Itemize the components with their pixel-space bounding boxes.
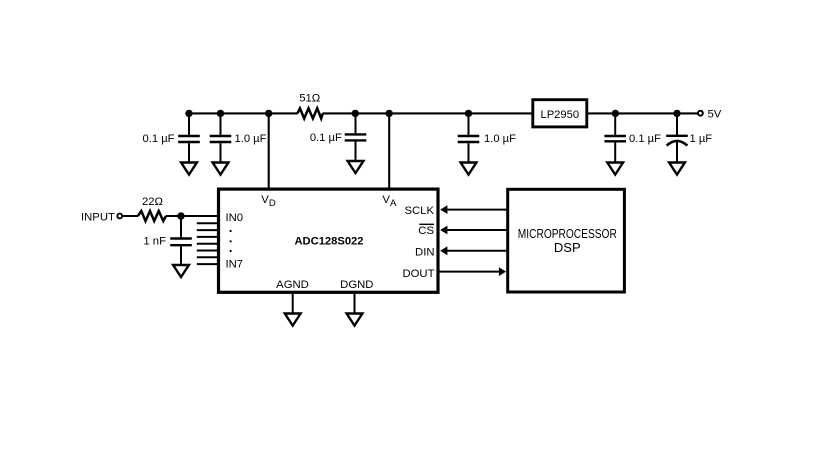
voltage regulator U2 LP2950 — [533, 100, 587, 127]
svg-text:IN0: IN0 — [226, 212, 244, 224]
svg-text:IN7: IN7 — [226, 259, 244, 271]
terminal: 5V input — [698, 109, 722, 121]
ground G3 — [348, 161, 364, 173]
pin dots IN1-IN6 ellipsis — [230, 230, 232, 252]
capacitor C7 1nF — [143, 216, 191, 264]
wire: IN6 stub — [197, 256, 220, 258]
svg-text:DIN: DIN — [415, 246, 434, 258]
svg-text:MICROPROCESSOR: MICROPROCESSOR — [518, 226, 617, 241]
wire: R2 to IN0 pin — [166, 215, 219, 217]
wire: AGND pin — [292, 292, 294, 313]
capacitor C5 0.1uF — [604, 113, 661, 161]
capacitor C1 0.1uF — [143, 113, 200, 161]
wire: input to R2 — [123, 215, 139, 217]
wire: CS with arrow to ADC — [440, 226, 508, 235]
wire: DGND pin — [354, 292, 356, 313]
junction on rail at C2 — [217, 110, 224, 117]
wire: IN7 stub — [197, 263, 220, 265]
ADC U1 ADC128S022 — [219, 189, 439, 292]
ground G9 DGND — [347, 314, 363, 326]
junction on rail at C5 — [612, 110, 619, 117]
pin label CS with overline — [418, 224, 434, 237]
svg-text:51Ω: 51Ω — [299, 92, 320, 104]
capacitor C6 1uF polarized — [666, 113, 712, 161]
wire: IN1 stub — [197, 222, 220, 224]
wire: IN4 stub — [197, 243, 220, 245]
svg-text:SCLK: SCLK — [404, 205, 434, 217]
wire: 5V rail right segment — [587, 112, 698, 114]
svg-text:22Ω: 22Ω — [142, 196, 163, 208]
junction on rail at C3 — [352, 110, 359, 117]
junction on rail at C6 — [673, 110, 680, 117]
svg-text:1.0 µF: 1.0 µF — [484, 133, 516, 145]
ground G8 AGND — [285, 314, 301, 326]
svg-text:1 µF: 1 µF — [690, 133, 713, 145]
svg-text:0.1 µF: 0.1 µF — [143, 133, 175, 145]
wire: DIN with arrow to ADC — [440, 246, 508, 255]
wire: VA supply tap — [388, 113, 390, 189]
svg-text:DOUT: DOUT — [402, 268, 434, 280]
svg-text:1.0 µF: 1.0 µF — [235, 133, 267, 145]
capacitor C2 1.0uF — [210, 113, 267, 161]
wire: IN3 stub — [197, 236, 220, 238]
svg-text:INPUT: INPUT — [81, 212, 115, 224]
ground G7 — [173, 265, 189, 277]
svg-text:0.1 µF: 0.1 µF — [629, 133, 661, 145]
resistor R2 22Ω — [138, 196, 166, 221]
microprocessor U3 — [508, 189, 625, 292]
svg-text:CS: CS — [418, 225, 434, 237]
wire: VD supply tap — [268, 113, 270, 189]
ground G6 — [669, 163, 685, 175]
svg-text:DGND: DGND — [340, 279, 373, 291]
junction on rail at VA tap — [386, 110, 393, 117]
junction at input RC node — [177, 212, 184, 219]
svg-text:1 nF: 1 nF — [143, 235, 166, 247]
wire: IN5 stub — [197, 250, 220, 252]
junction on rail at VD tap — [265, 110, 272, 117]
ground G1 — [181, 163, 197, 175]
svg-text:0.1 µF: 0.1 µF — [310, 132, 342, 144]
svg-text:DSP: DSP — [554, 240, 581, 255]
resistor R1 51Ω — [297, 92, 322, 118]
ground G2 — [213, 163, 229, 175]
capacitor C4 1.0uF — [458, 113, 516, 161]
svg-text:ADC128S022: ADC128S022 — [294, 236, 363, 248]
capacitor C3 0.1uF — [310, 113, 366, 160]
ground G5 — [607, 163, 623, 175]
wire: 5V rail middle segment — [323, 112, 533, 114]
ground G4 — [461, 163, 477, 175]
wire: IN2 stub — [197, 229, 220, 231]
svg-text:LP2950: LP2950 — [541, 109, 580, 121]
terminal: INPUT — [81, 212, 122, 224]
wire: SCLK with arrow to ADC — [440, 205, 508, 214]
svg-text:AGND: AGND — [276, 279, 309, 291]
junction on rail at C1 — [185, 110, 192, 117]
svg-text:5V: 5V — [708, 109, 722, 121]
junction on rail at C4 — [465, 110, 472, 117]
wire: 5V rail left segment — [189, 112, 298, 114]
wire: DOUT with arrow to microprocessor — [439, 267, 507, 276]
